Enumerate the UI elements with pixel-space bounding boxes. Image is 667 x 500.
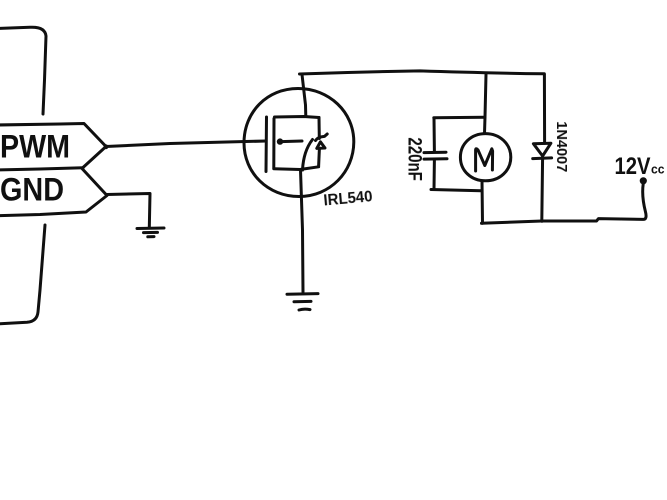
capacitor top wire	[434, 116, 485, 120]
capacitor C1 top stub	[433, 118, 436, 152]
drain wire	[302, 75, 306, 117]
bottom wire	[482, 184, 647, 223]
junction blob at PWM tag point	[104, 144, 109, 149]
gate bar	[265, 117, 269, 172]
svg-text:PWM: PWM	[0, 129, 70, 165]
motor M1 circle	[460, 134, 510, 181]
board outline bottom segment	[0, 225, 45, 324]
top wire	[300, 71, 545, 74]
svg-text:cc: cc	[651, 162, 665, 177]
motor bottom wire	[481, 181, 485, 223]
ground 2	[287, 294, 318, 310]
mosfet box right edge upper	[318, 118, 321, 139]
body diode cathode squiggle	[316, 134, 328, 141]
pin tag PWM	[0, 124, 106, 168]
capacitor C1 bottom stub	[433, 159, 436, 189]
12Vcc terminal dot	[640, 177, 647, 184]
capacitor bottom wire	[431, 190, 481, 191]
mosfet box top edge	[275, 117, 320, 118]
mosfet box bottom edge	[274, 167, 319, 170]
mosfet box right edge lower	[317, 149, 321, 167]
board outline top segment	[0, 27, 46, 114]
wire GND tag to ground 1	[107, 194, 150, 229]
transistor Q1 envelope circle	[244, 89, 354, 197]
diode D1 cathode wire	[540, 157, 544, 221]
motor letter M	[476, 149, 493, 171]
diode D1 triangle	[533, 143, 551, 156]
wire PWM to gate	[106, 141, 266, 147]
pin tag GND	[0, 169, 107, 216]
svg-text:1N4007: 1N4007	[553, 121, 570, 172]
motor branch wire	[485, 75, 487, 134]
source wire	[301, 170, 304, 292]
dot line	[281, 140, 302, 144]
diode D1 anode wire	[543, 75, 546, 144]
body connection arc	[303, 140, 313, 171]
svg-text:12V: 12V	[615, 153, 651, 180]
pin tag shared edge	[0, 168, 83, 170]
ground 1	[137, 228, 164, 237]
svg-text:220nF: 220nF	[404, 137, 425, 181]
svg-text:GND: GND	[0, 172, 64, 208]
capacitor C1 top plate	[424, 151, 446, 154]
mosfet channel plate left	[272, 119, 275, 169]
body diode triangle	[317, 142, 325, 149]
diode D1 cathode bar	[533, 156, 552, 160]
svg-text:IRL540: IRL540	[323, 188, 373, 209]
capacitor C1 bottom plate	[424, 157, 447, 160]
gate dot	[277, 138, 283, 144]
